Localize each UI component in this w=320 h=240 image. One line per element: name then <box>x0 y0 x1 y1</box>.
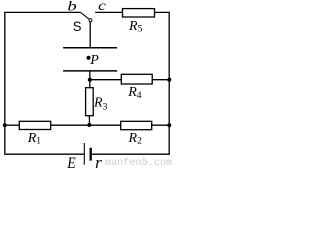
svg-text:E: E <box>66 155 76 169</box>
svg-text:r: r <box>95 153 102 169</box>
svg-text:S: S <box>73 18 82 34</box>
svg-text:b: b <box>67 0 76 15</box>
svg-text:P: P <box>89 53 99 68</box>
svg-text:manfen5.com: manfen5.com <box>105 157 172 169</box>
svg-text:c: c <box>98 0 107 14</box>
